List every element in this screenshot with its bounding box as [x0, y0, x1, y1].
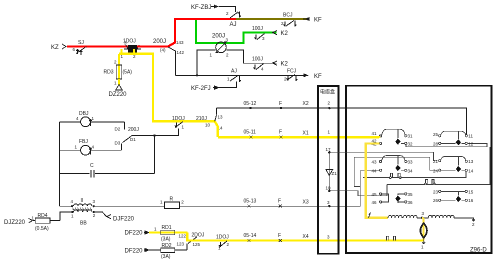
wire meter left pin to lower row: [197, 50, 216, 75]
coil diamond 33/34: [395, 156, 413, 174]
coil diamond 31/32: [395, 129, 413, 146]
svg-text:DJZ220: DJZ220: [4, 220, 26, 226]
terminal 45/46 loop: [372, 192, 389, 205]
svg-text:BCJ: BCJ: [283, 13, 293, 19]
svg-text:R: R: [170, 196, 174, 202]
svg-text:10: 10: [205, 123, 211, 128]
wire red top run: [174, 18, 236, 20]
contact AJ no1: [226, 11, 241, 28]
svg-text:X2: X2: [303, 101, 309, 107]
jack B4 B3: [425, 180, 435, 185]
svg-text:210J: 210J: [196, 116, 207, 122]
coil diamond 11/12: [456, 131, 474, 146]
contact BCJ: [281, 13, 296, 27]
svg-text:200J: 200J: [153, 39, 166, 45]
svg-text:31: 31: [408, 134, 414, 139]
svg-text:K2: K2: [281, 62, 289, 68]
svg-text:(5A): (5A): [123, 70, 133, 76]
contact 1DOJ (block): [121, 39, 142, 60]
wire X1 yellow row: [218, 136, 379, 138]
contact 1DOJ no3 (on X4 row): [216, 235, 230, 251]
svg-text:142: 142: [177, 50, 185, 55]
contact 1DOJ no2 (on yellow row): [172, 116, 185, 130]
svg-text:X1: X1: [303, 131, 309, 137]
coil diamond 15/16: [456, 191, 474, 203]
wire grey B5 bus: [363, 171, 466, 177]
svg-text:16: 16: [468, 198, 474, 203]
node KF arrow top: [303, 17, 322, 24]
svg-text:24: 24: [433, 168, 439, 173]
capacitor C: [60, 163, 155, 178]
svg-text:2DOJ: 2DOJ: [192, 233, 205, 239]
wire meter right pin down to 100J-4: [227, 50, 277, 63]
cable box 电缆盒: [318, 86, 338, 254]
resistor R: [160, 196, 184, 208]
relay DBJ: [60, 111, 125, 127]
svg-text:DJF220: DJF220: [113, 217, 135, 223]
node F tick X4: [278, 233, 282, 242]
wire red fork up 143: [168, 19, 175, 47]
svg-text:RD3: RD3: [104, 70, 114, 76]
wire grey 157 bus: [354, 157, 437, 186]
svg-text:05-11: 05-11: [244, 130, 257, 136]
valve component (diamond+circle): [420, 223, 427, 249]
svg-text:D3: D3: [115, 141, 121, 146]
wire common to 1DOJ bottom: [154, 129, 178, 136]
svg-text:42: 42: [372, 139, 378, 144]
svg-text:100J: 100J: [252, 26, 263, 32]
svg-text:05-14: 05-14: [244, 233, 257, 239]
node DJZ220 input + fuse RD4: [4, 212, 72, 232]
terminal 24: [433, 168, 455, 173]
node KF arrow lower: [302, 73, 322, 80]
node K2 arrow lower: [273, 61, 289, 68]
svg-text:122: 122: [179, 234, 187, 239]
wire grey 10 line: [329, 147, 490, 196]
svg-text:RD4: RD4: [38, 213, 48, 219]
changeover 2DOJ: [177, 233, 205, 248]
svg-text:(3A): (3A): [161, 237, 171, 243]
node KF-2FJ feeder: [191, 82, 237, 93]
svg-text:35: 35: [408, 192, 414, 197]
node 05-14 tick: [244, 233, 257, 242]
terminal 26: [433, 198, 455, 203]
node 05-12 tick: [244, 101, 257, 109]
terminal 28: [433, 142, 455, 147]
svg-text:100J: 100J: [252, 57, 263, 63]
svg-text:DF220: DF220: [125, 249, 144, 255]
svg-text:43: 43: [372, 160, 378, 165]
svg-text:17: 17: [326, 147, 332, 152]
node DZ220 source: [109, 79, 128, 98]
svg-text:KF-ZBJ: KF-ZBJ: [191, 5, 211, 11]
terminal 43 + bridge to 33: [372, 156, 414, 165]
terminal 42 + yellow loop down: [366, 139, 388, 218]
changeover 200J no1: [153, 39, 185, 55]
meter 200J (circle with slash): [210, 34, 230, 58]
wire yellow X1 into 41: [379, 136, 380, 139]
changeover 200J no2: [115, 122, 155, 150]
svg-text:12: 12: [468, 142, 474, 147]
svg-text:34: 34: [408, 169, 414, 174]
svg-text:AJ: AJ: [231, 69, 237, 75]
svg-text:DBJ: DBJ: [79, 111, 89, 117]
terminal 23 link 15: [433, 189, 474, 194]
wire grey 32-12 bus: [406, 143, 487, 146]
svg-text:41: 41: [372, 131, 378, 136]
box Z96-D outline: [346, 86, 492, 253]
node DJF220 output: [94, 212, 135, 222]
svg-text:10: 10: [326, 186, 332, 191]
svg-text:DF220: DF220: [125, 231, 144, 237]
svg-text:125: 125: [193, 242, 201, 247]
svg-text:(3A): (3A): [161, 254, 171, 260]
wire X2 row: [217, 108, 467, 135]
transformer BB: [60, 198, 96, 227]
contact FCJ: [284, 69, 297, 82]
svg-text:26: 26: [433, 198, 439, 203]
svg-text:KZ: KZ: [51, 45, 59, 51]
jack B5 pair on X4 row: [386, 236, 396, 240]
coil diamond 13/14: [456, 156, 474, 173]
svg-text:200J: 200J: [212, 34, 225, 40]
svg-text:1DOJ: 1DOJ: [216, 235, 229, 241]
svg-text:11: 11: [468, 134, 473, 139]
changeover 210J: [196, 108, 223, 130]
inductor row: [369, 211, 476, 227]
node KZ input: [51, 44, 66, 51]
svg-text:13: 13: [218, 115, 224, 120]
svg-text:45: 45: [372, 192, 378, 197]
node DF220 input 1 + fuse RD1: [125, 225, 188, 242]
svg-text:(4): (4): [160, 48, 166, 53]
node K2 arrow green: [273, 31, 289, 38]
relay FBJ: [60, 139, 122, 155]
svg-text:(0.5A): (0.5A): [35, 226, 49, 232]
contact AJ no2: [227, 69, 241, 83]
svg-text:123: 123: [177, 242, 185, 247]
fuse RD3: [104, 60, 133, 86]
svg-text:200J: 200J: [128, 127, 139, 133]
svg-text:FCJ: FCJ: [287, 69, 297, 75]
terminal 41 + bridge to 31: [372, 129, 414, 138]
svg-text:21: 21: [433, 159, 439, 164]
svg-text:15: 15: [468, 189, 474, 194]
wire black fork down 142: [168, 47, 176, 75]
svg-text:F: F: [279, 101, 282, 107]
terminal 44: [372, 169, 382, 174]
wire green tap from red: [196, 20, 277, 43]
node F tick top: [279, 101, 282, 109]
svg-text:1DOJ: 1DOJ: [172, 116, 185, 122]
svg-text:23: 23: [433, 189, 439, 194]
svg-text:C: C: [90, 163, 94, 169]
svg-text:46: 46: [372, 200, 378, 205]
wire yellow under 1DOJ block: [122, 49, 135, 54]
svg-text:36: 36: [408, 200, 414, 205]
terminal 21 + bridge to 13: [433, 156, 474, 164]
svg-text:KF: KF: [314, 18, 322, 24]
wire yellow tap to valve: [422, 218, 424, 241]
wire yellow 210J to X1 row: [215, 121, 218, 137]
svg-text:K2: K2: [281, 31, 289, 37]
coil diamond 35/36: [395, 192, 413, 205]
svg-text:F: F: [278, 233, 281, 239]
svg-text:D2: D2: [115, 127, 121, 132]
node F tick X3: [278, 199, 282, 208]
node 05-11 tick: [244, 130, 257, 139]
contact 100J-3 on green: [252, 26, 265, 41]
svg-text:电缆盒: 电缆盒: [320, 89, 335, 96]
wire FCJ row: [176, 74, 309, 76]
wire grey X3 staircase: [360, 170, 379, 206]
svg-text:KF-2FJ: KF-2FJ: [191, 86, 211, 92]
svg-text:Z96-D: Z96-D: [470, 248, 487, 254]
svg-text:33: 33: [408, 160, 414, 165]
svg-text:BB: BB: [80, 221, 87, 227]
wire yellow 2DOJ to X4 row: [187, 233, 423, 241]
junction 200J common: [153, 134, 155, 136]
wire left bus: [59, 122, 61, 206]
svg-text:13: 13: [468, 159, 474, 164]
wire red main KZ line: [67, 45, 168, 47]
svg-text:SJ: SJ: [78, 40, 84, 46]
svg-text:D1: D1: [130, 137, 136, 142]
node F tick X1: [279, 130, 283, 139]
contact 100J-4: [252, 57, 264, 72]
svg-text:DZ220: DZ220: [109, 92, 128, 98]
svg-text:Z1: Z1: [332, 171, 338, 176]
svg-text:14: 14: [468, 168, 474, 173]
wire olive KF run: [236, 18, 308, 20]
svg-text:AJ: AJ: [230, 22, 237, 28]
svg-text:RD1: RD1: [162, 225, 172, 231]
svg-text:05-12: 05-12: [244, 101, 257, 107]
svg-text:X4: X4: [303, 234, 309, 240]
svg-text:F: F: [278, 199, 281, 205]
svg-text:RD2: RD2: [162, 243, 172, 249]
wire grey 17 bus: [329, 152, 437, 160]
svg-text:44: 44: [372, 169, 378, 174]
svg-text:FBJ: FBJ: [79, 139, 88, 145]
contact SJ: [73, 40, 87, 55]
wire red to 200J: [137, 45, 168, 47]
svg-text:05-13: 05-13: [244, 199, 257, 205]
junction meter-FCJ row: [196, 74, 198, 76]
svg-text:28: 28: [433, 142, 439, 147]
svg-text:II: II: [81, 198, 84, 204]
svg-text:25: 25: [433, 132, 439, 137]
jack B1 B2: [390, 173, 402, 178]
node DF220 input 2 + fuse RD2: [125, 243, 187, 260]
svg-text:143: 143: [176, 40, 184, 45]
svg-text:32: 32: [408, 142, 414, 147]
svg-text:X3: X3: [303, 200, 309, 206]
junction inductor tap: [421, 217, 423, 219]
wire C row to common: [153, 136, 155, 174]
node 05-13 tick: [244, 199, 257, 208]
wire X3 row (transformer top): [94, 205, 361, 207]
node KF-ZBJ feeder: [191, 5, 236, 12]
terminal 25 + bridge to 11: [433, 131, 473, 138]
svg-text:F: F: [279, 130, 282, 136]
svg-text:KF: KF: [314, 74, 322, 80]
